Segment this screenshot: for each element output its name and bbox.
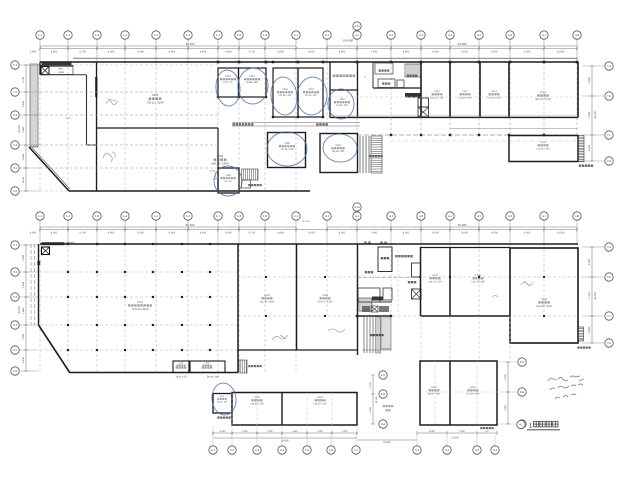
svg-text:8.000: 8.000: [403, 232, 410, 235]
svg-text:8.000: 8.000: [429, 430, 436, 433]
svg-text:104.26 / 40P: 104.26 / 40P: [487, 96, 501, 99]
svg-text:4-7: 4-7: [542, 33, 546, 37]
svg-text:141.56 / 43P: 141.56 / 43P: [281, 148, 294, 151]
svg-text:3-4: 3-4: [493, 448, 497, 452]
svg-text:1-3: 1-3: [95, 214, 99, 218]
svg-text:1-4: 1-4: [123, 33, 127, 37]
svg-text:C105: C105: [322, 294, 328, 297]
svg-text:Y-2: Y-2: [13, 90, 18, 94]
svg-text:2-3: 2-3: [255, 448, 259, 452]
svg-text:1-1: 1-1: [38, 33, 42, 37]
svg-text:4-1: 4-1: [355, 33, 359, 37]
svg-text:Y-6: Y-6: [13, 189, 18, 193]
svg-text:10.200: 10.200: [557, 51, 565, 54]
svg-text:23.300: 23.300: [451, 437, 459, 440]
svg-text:4.000: 4.000: [108, 232, 115, 235]
svg-text:C303: C303: [205, 362, 210, 365]
svg-text:4.950: 4.950: [277, 232, 284, 235]
svg-text:43.950: 43.950: [281, 440, 289, 443]
svg-text:C289: C289: [284, 142, 290, 145]
svg-text:2978.35 / 884P: 2978.35 / 884P: [131, 308, 148, 311]
svg-text:8.500: 8.500: [51, 51, 58, 54]
svg-text:Y-d: Y-d: [607, 159, 612, 163]
svg-text:4.000: 4.000: [308, 51, 315, 54]
svg-text:32.500: 32.500: [18, 306, 21, 314]
svg-text:303.26 / 110P: 303.26 / 110P: [535, 98, 551, 101]
svg-text:C302: C302: [179, 362, 184, 365]
svg-text:4.000: 4.000: [169, 51, 176, 54]
svg-text:4-8: 4-8: [575, 33, 579, 37]
svg-text:1-1: 1-1: [38, 214, 42, 218]
svg-text:8.500: 8.500: [30, 232, 37, 235]
svg-text:7.450: 7.450: [292, 430, 299, 433]
svg-text:4-2: 4-2: [389, 214, 393, 218]
svg-text:7.400: 7.400: [267, 430, 274, 433]
svg-text:1-8: 1-8: [237, 33, 241, 37]
svg-text:HB 1: HB 1: [58, 68, 64, 71]
svg-text:Y-4: Y-4: [13, 323, 18, 327]
svg-text:Y-6: Y-6: [13, 369, 18, 373]
svg-text:9.600: 9.600: [432, 232, 439, 235]
svg-text:10.200: 10.200: [557, 232, 565, 235]
svg-text:B102: B102: [470, 386, 476, 389]
svg-text:93.68 / 28P: 93.68 / 28P: [246, 81, 258, 84]
svg-text:Y-1: Y-1: [13, 243, 18, 247]
svg-text:6.430: 6.430: [22, 176, 25, 183]
svg-text:2-2: 2-2: [230, 448, 234, 452]
svg-text:C290: C290: [335, 144, 341, 147]
svg-text:5.000: 5.000: [524, 51, 531, 54]
svg-text:C302: C302: [308, 88, 314, 91]
svg-text:273.00 / 82P: 273.00 / 82P: [466, 392, 480, 395]
svg-text:81.250: 81.250: [186, 42, 195, 46]
svg-text:C303: C303: [282, 88, 288, 91]
svg-text:5.400: 5.400: [220, 430, 227, 433]
svg-text:3-B: 3-B: [520, 390, 524, 394]
svg-text:36.400: 36.400: [594, 292, 597, 300]
svg-text:703.11 / 210P: 703.11 / 210P: [146, 101, 163, 105]
svg-text:7.400: 7.400: [342, 430, 349, 433]
svg-text:Y-3: Y-3: [13, 113, 18, 117]
svg-text:Y-1: Y-1: [13, 63, 18, 67]
svg-text:4-7: 4-7: [542, 214, 546, 218]
svg-text:8.000: 8.000: [403, 51, 410, 54]
svg-text:4-4: 4-4: [448, 33, 452, 37]
svg-text:Y-b: Y-b: [607, 275, 612, 279]
svg-text:4-2: 4-2: [389, 33, 393, 37]
svg-text:32.500: 32.500: [18, 125, 21, 133]
svg-text:2-6: 2-6: [329, 448, 333, 452]
svg-text:9.600: 9.600: [432, 51, 439, 54]
svg-text:1-2: 1-2: [66, 33, 70, 37]
svg-text:B101: B101: [431, 386, 437, 389]
svg-text:7.630: 7.630: [22, 100, 25, 107]
svg-text:C101: C101: [137, 301, 144, 304]
svg-text:3-3: 3-3: [475, 448, 479, 452]
svg-text:C211: C211: [434, 90, 440, 93]
svg-text:5.700: 5.700: [369, 381, 372, 387]
svg-text:1-4: 1-4: [123, 214, 127, 218]
svg-text:C305: C305: [225, 75, 231, 78]
svg-text:104.600: 104.600: [343, 39, 354, 43]
svg-text:36.400: 36.400: [594, 111, 597, 119]
svg-text:8.000: 8.000: [339, 51, 346, 54]
svg-text:Y-c: Y-c: [607, 314, 612, 318]
svg-text:147.49 / 44P: 147.49 / 44P: [279, 94, 292, 97]
svg-text:C214: C214: [540, 91, 547, 94]
svg-text:7.900: 7.900: [371, 232, 378, 235]
svg-text:4-6: 4-6: [508, 33, 512, 37]
svg-text:3-1: 3-1: [415, 448, 419, 452]
svg-text:Y-b: Y-b: [607, 94, 612, 98]
svg-text:2-1: 2-1: [294, 33, 298, 37]
svg-text:Y-3: Y-3: [13, 295, 18, 299]
svg-text:3.000: 3.000: [30, 51, 37, 54]
svg-text:4-4: 4-4: [448, 214, 452, 218]
svg-text:5.000: 5.000: [524, 232, 531, 235]
svg-text:1-8: 1-8: [237, 214, 241, 218]
svg-text:176.56 / 53P: 176.56 / 53P: [536, 147, 550, 150]
svg-text:603.82 / 181P: 603.82 / 181P: [536, 305, 552, 308]
svg-text:7.500: 7.500: [22, 254, 25, 261]
svg-text:899.53 / 260P: 899.53 / 260P: [211, 162, 229, 166]
svg-text:8.500: 8.500: [51, 232, 58, 235]
svg-text:6.430: 6.430: [22, 356, 25, 363]
svg-text:2-4: 2-4: [280, 448, 284, 452]
svg-text:7.500: 7.500: [459, 430, 466, 433]
svg-text:Y-5: Y-5: [13, 348, 18, 352]
svg-text:4.750: 4.750: [79, 51, 86, 54]
svg-text:6.600: 6.600: [588, 144, 591, 151]
svg-text:4.750: 4.750: [79, 232, 86, 235]
svg-text:C202: C202: [217, 154, 224, 158]
svg-text:6.300: 6.300: [504, 404, 507, 410]
svg-text:7.900: 7.900: [371, 51, 378, 54]
svg-text:1-6: 1-6: [186, 33, 190, 37]
svg-text:58.16 / 16P: 58.16 / 16P: [207, 376, 220, 379]
svg-text:4.000: 4.000: [308, 232, 315, 235]
svg-text:2-2: 2-2: [325, 33, 329, 37]
svg-text:4-1a: 4-1a: [354, 205, 360, 209]
svg-text:1-9: 1-9: [263, 33, 267, 37]
svg-text:74.38 / 22P: 74.38 / 22P: [336, 104, 348, 107]
svg-text:1-9: 1-9: [263, 214, 267, 218]
svg-text:3-C: 3-C: [520, 360, 525, 364]
svg-text:A1: A1: [519, 423, 523, 427]
svg-text:0.750: 0.750: [249, 232, 256, 235]
svg-text:2-2: 2-2: [325, 214, 329, 218]
svg-text:7.400: 7.400: [242, 430, 249, 433]
svg-text:ke 2: ke 2: [66, 117, 71, 120]
svg-text:136.40 / 41P: 136.40 / 41P: [313, 402, 327, 405]
svg-text:NY.100: NY.100: [302, 220, 310, 223]
svg-text:9.4 / 3P: 9.4 / 3P: [224, 180, 232, 183]
svg-text:Y-5: Y-5: [13, 166, 18, 170]
svg-text:61.600: 61.600: [458, 42, 467, 46]
svg-text:1-7: 1-7: [216, 33, 220, 37]
svg-text:9.5x5: 9.5x5: [58, 71, 64, 74]
svg-text:8.000: 8.000: [588, 326, 591, 333]
svg-text:Y-a: Y-a: [607, 245, 612, 249]
svg-text:4-8: 4-8: [575, 214, 579, 218]
svg-text:1.100: 1.100: [22, 76, 25, 83]
svg-text:7.400: 7.400: [588, 111, 591, 118]
svg-text:1-5: 1-5: [154, 33, 158, 37]
svg-text:126.76 / 38P: 126.76 / 38P: [471, 280, 485, 283]
svg-text:2-5: 2-5: [305, 448, 309, 452]
svg-text:2-7: 2-7: [354, 448, 358, 452]
svg-text:4.300: 4.300: [137, 232, 144, 235]
svg-text:1: 1: [529, 423, 533, 430]
svg-text:A103: A103: [317, 396, 323, 399]
svg-text:4-6: 4-6: [508, 214, 512, 218]
svg-text:Y-a: Y-a: [607, 64, 612, 68]
svg-text:7.500: 7.500: [22, 333, 25, 340]
svg-text:45.00 / 14P: 45.00 / 14P: [217, 400, 228, 403]
svg-text:7.630: 7.630: [22, 281, 25, 288]
svg-text:1-7: 1-7: [216, 214, 220, 218]
svg-text:149.36 / 45P: 149.36 / 45P: [332, 150, 345, 153]
svg-text:4.000: 4.000: [108, 51, 115, 54]
svg-text:4.300: 4.300: [137, 51, 144, 54]
svg-text:4-3: 4-3: [419, 214, 423, 218]
svg-text:A102: A102: [254, 396, 260, 399]
svg-text:C212: C212: [462, 90, 468, 93]
svg-text:579.13 / 173P: 579.13 / 173P: [318, 300, 333, 303]
svg-text:18.300: 18.300: [375, 396, 378, 403]
svg-text:5.500: 5.500: [588, 76, 591, 83]
svg-text:2-A: 2-A: [381, 422, 385, 426]
svg-text:1-5: 1-5: [154, 214, 158, 218]
svg-text:4.950: 4.950: [225, 51, 232, 54]
svg-text:9.74 / 1P: 9.74 / 1P: [223, 81, 233, 84]
svg-text:81.250: 81.250: [186, 223, 195, 227]
svg-text:0.750: 0.750: [249, 51, 256, 54]
svg-text:92.76 / 42P: 92.76 / 42P: [305, 94, 317, 97]
svg-text:Y-c: Y-c: [607, 133, 612, 137]
svg-text:4.950: 4.950: [200, 51, 207, 54]
svg-text:C103: C103: [541, 298, 548, 301]
svg-text:2-C: 2-C: [381, 373, 386, 377]
svg-text:Y-4: Y-4: [13, 143, 18, 147]
svg-text:1-2: 1-2: [66, 214, 70, 218]
svg-text:C104: C104: [264, 294, 270, 297]
svg-text:Y-d: Y-d: [607, 341, 612, 345]
svg-text:C215: C215: [540, 141, 546, 144]
svg-text:562.40 / 169P: 562.40 / 169P: [260, 300, 275, 303]
svg-text:4-1: 4-1: [355, 214, 359, 218]
svg-text:11.400: 11.400: [588, 292, 591, 300]
svg-text:3-2: 3-2: [445, 448, 449, 452]
svg-text:C213: C213: [491, 90, 497, 93]
svg-text:6.000: 6.000: [588, 258, 591, 265]
svg-text:4.950: 4.950: [225, 232, 232, 235]
svg-text:88.95 / 26P: 88.95 / 26P: [428, 392, 441, 395]
svg-text:4.000: 4.000: [169, 232, 176, 235]
svg-text:16.51 / 5P: 16.51 / 5P: [176, 376, 187, 379]
svg-text:18.300: 18.300: [383, 441, 391, 444]
svg-text:C288: C288: [225, 174, 231, 177]
svg-text:C201: C201: [152, 93, 159, 97]
svg-text:8.000: 8.000: [461, 232, 468, 235]
svg-text:8.000: 8.000: [339, 232, 346, 235]
svg-text:C106: C106: [475, 274, 481, 277]
svg-text:4-3: 4-3: [419, 33, 423, 37]
svg-text:4-5: 4-5: [477, 214, 481, 218]
svg-text:8.000: 8.000: [491, 232, 498, 235]
svg-text:Y-2: Y-2: [13, 270, 18, 274]
svg-text:C102: C102: [432, 274, 438, 277]
svg-text:7.400: 7.400: [317, 430, 324, 433]
svg-text:1-6: 1-6: [186, 214, 190, 218]
svg-text:8.000: 8.000: [491, 51, 498, 54]
svg-text:4.950: 4.950: [200, 232, 207, 235]
svg-text:65.400: 65.400: [458, 223, 467, 227]
svg-text:4-1a: 4-1a: [354, 24, 360, 28]
svg-text:6.300: 6.300: [504, 373, 507, 379]
svg-text:4.950: 4.950: [277, 51, 284, 54]
svg-text:2.530: 2.530: [22, 153, 25, 160]
svg-text:C304: C304: [249, 75, 255, 78]
svg-text:8.000: 8.000: [461, 51, 468, 54]
svg-text:1.660: 1.660: [22, 307, 25, 314]
svg-text:2-1: 2-1: [211, 448, 215, 452]
svg-text:2-1: 2-1: [294, 214, 298, 218]
svg-text:4-5: 4-5: [477, 33, 481, 37]
svg-text:184.46 / 55P: 184.46 / 55P: [428, 280, 442, 283]
svg-text:4.200: 4.200: [369, 406, 372, 412]
svg-text:2-B: 2-B: [381, 392, 385, 396]
svg-text:C287: C287: [339, 98, 345, 101]
svg-text:1-3: 1-3: [95, 33, 99, 37]
svg-text:1.660: 1.660: [22, 126, 25, 133]
